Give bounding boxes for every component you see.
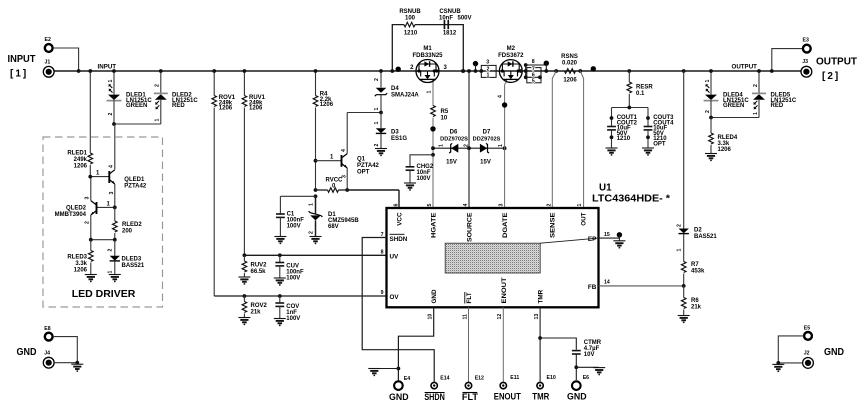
svg-text:J4: J4 — [44, 350, 50, 356]
wire E2 to rail — [53, 48, 81, 73]
wire SHDN route to E14 — [362, 238, 434, 382]
svg-text:1206: 1206 — [74, 268, 88, 274]
svg-text:D2: D2 — [694, 228, 702, 234]
resistor RSNUB — [399, 9, 421, 37]
wire CHG2 branch — [410, 153, 435, 166]
transistor QLED2 MMBT3904 (mirrored) — [55, 197, 117, 225]
wire D2 column from rail — [682, 69, 686, 228]
terminal E6 — [567, 375, 589, 401]
svg-text:SENSE: SENSE — [550, 213, 557, 239]
svg-text:FDS3672: FDS3672 — [498, 53, 524, 59]
svg-text:2: 2 — [487, 66, 490, 72]
svg-text:68V: 68V — [328, 224, 339, 230]
svg-text:3: 3 — [486, 59, 489, 65]
testpoint on DGATE — [502, 102, 507, 107]
svg-text:GND: GND — [431, 289, 438, 303]
svg-text:2: 2 — [374, 78, 380, 81]
wire CTMR ground branch — [574, 365, 598, 369]
svg-text:0.1: 0.1 — [636, 91, 645, 97]
svg-text:4: 4 — [109, 165, 115, 168]
svg-text:MMBT3904: MMBT3904 — [55, 212, 87, 218]
svg-text:FLT: FLT — [466, 292, 473, 303]
terminal E10 — [532, 375, 556, 402]
svg-text:RUV2: RUV2 — [251, 263, 268, 269]
svg-text:4: 4 — [341, 149, 347, 152]
LED driver dashed box — [43, 137, 163, 307]
OUTPUT [2] label — [816, 57, 857, 83]
svg-text:M1: M1 — [423, 46, 432, 52]
snubber loop wire — [390, 25, 465, 73]
mosfet M2 FDS3672 — [498, 46, 524, 82]
diode DLED3 BAS521 — [108, 240, 145, 275]
svg-text:10nF: 10nF — [439, 16, 453, 22]
ground D3 — [375, 149, 387, 156]
ground CTMR — [593, 368, 605, 375]
wire DLED1 node down to QLED1 collector — [114, 124, 116, 170]
svg-text:BAS521: BAS521 — [694, 234, 717, 240]
wire CTMR branch — [540, 338, 576, 350]
svg-text:1: 1 — [108, 271, 114, 274]
exposed pad EP hatch — [445, 238, 598, 273]
svg-text:453k: 453k — [691, 269, 705, 275]
wire RVCC row to VCC pin 6 — [347, 190, 399, 208]
pin 10 GND — [428, 289, 439, 319]
svg-text:TMR: TMR — [532, 392, 549, 402]
resistor ROV1 — [212, 69, 236, 296]
svg-text:SMAJ24A: SMAJ24A — [391, 93, 419, 99]
svg-text:66.5k: 66.5k — [251, 269, 267, 275]
wire FLT column — [468, 307, 470, 382]
wire QLED2 collector up to RLED1 node — [88, 175, 92, 201]
svg-text:FDB33N25: FDB33N25 — [412, 53, 443, 59]
svg-text:15: 15 — [604, 232, 610, 238]
mosfet M1 FDB33N25 — [410, 46, 447, 83]
terminal J4 — [43, 350, 54, 368]
net label INPUT — [98, 64, 117, 71]
wire Q1 emitter down to RVCC row — [345, 168, 349, 192]
svg-text:1: 1 — [374, 108, 380, 111]
svg-text:2: 2 — [85, 221, 91, 224]
LED DLED2 (red) — [154, 69, 199, 124]
svg-text:15V: 15V — [446, 160, 457, 166]
ground C1 — [274, 237, 286, 244]
svg-text:SHDN: SHDN — [390, 236, 408, 243]
svg-text:1206: 1206 — [718, 147, 732, 153]
svg-text:2: 2 — [463, 144, 469, 147]
terminal J3 — [801, 59, 812, 77]
svg-text:1: 1 — [577, 204, 583, 207]
wire SENSE kelvin tap — [552, 69, 558, 208]
svg-text:2: 2 — [546, 204, 552, 207]
GND label left — [17, 347, 37, 358]
svg-text:DGATE: DGATE — [502, 213, 509, 239]
svg-text:14: 14 — [604, 280, 610, 286]
diode D2 BAS521 — [677, 224, 718, 262]
resistor RLED3 — [67, 240, 93, 275]
resistor RLED2 — [113, 207, 143, 239]
svg-text:E11: E11 — [510, 375, 519, 381]
pin 14 FB — [588, 280, 684, 291]
svg-text:D6: D6 — [450, 130, 458, 136]
ground GND pin — [368, 369, 380, 376]
node FB junction — [682, 284, 686, 288]
pin 12 ENOUT — [497, 277, 508, 319]
svg-text:1: 1 — [374, 122, 380, 125]
resistor R5 — [431, 106, 449, 209]
svg-text:2: 2 — [108, 113, 114, 116]
svg-text:GND: GND — [824, 347, 844, 358]
zener D1 CMZ5945B — [308, 196, 359, 236]
svg-text:RSNUB: RSNUB — [399, 9, 421, 15]
svg-text:3: 3 — [85, 197, 91, 200]
svg-text:100V: 100V — [417, 176, 431, 182]
wire LED bottoms row — [112, 122, 161, 126]
svg-text:10: 10 — [441, 116, 448, 122]
svg-text:15V: 15V — [480, 160, 491, 166]
resistor ROV2 — [242, 294, 267, 317]
svg-text:LTC4364HDE- *: LTC4364HDE- * — [592, 194, 670, 205]
ground J4 — [71, 364, 83, 371]
wire to ground from GND route — [375, 368, 398, 370]
svg-text:2: 2 — [308, 231, 314, 234]
M2 drain pin group box (pins 8,7,6,5) — [519, 59, 546, 84]
ground COV — [274, 319, 286, 326]
svg-text:OV: OV — [390, 294, 400, 301]
svg-text:1: 1 — [439, 144, 445, 147]
svg-text:8: 8 — [532, 59, 535, 65]
svg-text:R5: R5 — [441, 109, 449, 115]
svg-text:4: 4 — [498, 95, 504, 98]
svg-text:INPUT: INPUT — [8, 54, 36, 65]
node D4/D3/Q1 junction — [379, 111, 383, 115]
capacitor COUT3/COUT4 — [644, 115, 675, 148]
svg-text:PZTA42: PZTA42 — [124, 184, 147, 190]
wire TMR column — [538, 307, 542, 381]
svg-text:3.3k: 3.3k — [75, 261, 87, 267]
svg-text:21k: 21k — [691, 305, 702, 311]
svg-text:E6: E6 — [583, 375, 589, 381]
resistor RLED1 — [67, 151, 92, 170]
terminal E14 — [424, 376, 449, 403]
capacitor CTMR — [572, 340, 602, 380]
wire OV row to pin 9 — [214, 295, 386, 297]
wire M1 gate / HGATE column — [427, 82, 434, 105]
transistor QLED1 PZTA42 — [90, 165, 147, 195]
pin 4 SOURCE — [463, 204, 474, 243]
svg-text:5: 5 — [532, 78, 535, 84]
svg-text:8: 8 — [381, 250, 384, 256]
svg-text:4: 4 — [463, 204, 469, 207]
svg-text:DDZ9702S: DDZ9702S — [440, 137, 468, 143]
svg-text:HGATE: HGATE — [431, 213, 438, 239]
svg-text:200: 200 — [122, 229, 133, 235]
ground R6 — [678, 316, 690, 323]
terminal E3 — [803, 38, 811, 53]
svg-text:[ 2 ]: [ 2 ] — [822, 71, 838, 82]
zener D6 DDZ9702S — [439, 130, 469, 166]
svg-text:100V: 100V — [286, 316, 300, 322]
resistor R6 — [681, 286, 701, 316]
op-amp U1 LTC4364HDE IC body — [387, 183, 671, 308]
capacitor COV — [275, 294, 300, 322]
wire D6/D7 row — [431, 146, 506, 150]
terminal E5 — [804, 325, 812, 340]
wire C1 branch — [280, 194, 317, 198]
pin 11 FLT — [462, 292, 473, 320]
svg-text:1: 1 — [108, 80, 114, 83]
svg-text:QLED1: QLED1 — [124, 177, 145, 183]
svg-text:100V: 100V — [287, 224, 301, 230]
capacitor COUT1/COUT2 — [607, 115, 638, 148]
pin 8 UV — [381, 250, 399, 261]
ground COUT3/4 — [642, 148, 654, 155]
svg-text:1: 1 — [427, 91, 433, 94]
M2 source pin group box (pins 3,2,1) — [461, 59, 496, 78]
ground J2 — [772, 364, 784, 371]
svg-text:M2: M2 — [507, 46, 516, 52]
svg-text:10V: 10V — [584, 352, 595, 358]
diode D3 ES1G — [374, 113, 408, 149]
svg-text:5: 5 — [427, 204, 433, 207]
svg-text:2: 2 — [155, 84, 161, 87]
svg-text:GREEN: GREEN — [723, 103, 744, 109]
svg-text:2: 2 — [705, 110, 711, 113]
terminal J1 — [43, 60, 54, 78]
pin 5 HGATE — [427, 204, 438, 239]
svg-text:SHDN: SHDN — [424, 392, 445, 402]
svg-text:[ 1 ]: [ 1 ] — [10, 69, 26, 80]
pin 15 EP — [588, 232, 620, 243]
capacitor CHG2 — [406, 164, 434, 183]
net label OUTPUT — [732, 64, 758, 71]
svg-text:BAS521: BAS521 — [122, 263, 145, 269]
svg-text:2: 2 — [374, 144, 380, 147]
svg-text:DLED3: DLED3 — [122, 257, 142, 263]
wire E5/J2 to ground — [776, 336, 803, 365]
wire GND pin route to E4 — [397, 307, 434, 381]
ground DLED3 — [109, 275, 121, 282]
wire OUT kelvin tap — [578, 69, 583, 208]
svg-text:RSNS: RSNS — [561, 54, 578, 60]
terminal E4 — [389, 376, 410, 402]
svg-text:GND: GND — [567, 392, 587, 402]
svg-text:CSNUB: CSNUB — [439, 9, 461, 15]
svg-text:1: 1 — [155, 119, 161, 122]
svg-text:DDZ9702S: DDZ9702S — [473, 137, 501, 143]
svg-text:1: 1 — [308, 203, 314, 206]
svg-text:RESR: RESR — [636, 85, 653, 91]
terminal E12 — [462, 376, 484, 403]
svg-text:OPT: OPT — [653, 142, 666, 148]
ground RUV2 — [238, 277, 250, 284]
resistor RUV1 — [242, 69, 266, 255]
svg-text:OUT: OUT — [580, 212, 587, 225]
svg-text:2: 2 — [753, 84, 759, 87]
svg-text:E10: E10 — [547, 375, 556, 381]
svg-text:7: 7 — [532, 66, 535, 72]
svg-text:OUTPUT: OUTPUT — [816, 57, 857, 68]
LED DLED4 (green) — [704, 69, 750, 117]
pin 13 TMR — [534, 289, 545, 319]
svg-text:1206: 1206 — [74, 164, 88, 170]
svg-text:0.020: 0.020 — [562, 60, 578, 66]
svg-text:1206: 1206 — [563, 78, 577, 84]
svg-text:3: 3 — [499, 204, 505, 207]
ground RLED3 — [85, 275, 97, 282]
resistor RLED4 — [709, 118, 738, 154]
testpoint on output rail — [591, 66, 596, 71]
terminal E2 — [45, 37, 53, 52]
svg-text:D7: D7 — [483, 130, 491, 136]
wire RLED1 column — [88, 69, 92, 177]
svg-text:ES1G: ES1G — [391, 136, 407, 142]
wire ENOUT column — [502, 307, 504, 382]
svg-text:UV: UV — [390, 254, 400, 261]
wire SOURCE column — [467, 69, 471, 208]
svg-text:J1: J1 — [45, 60, 51, 66]
svg-text:249k: 249k — [74, 157, 88, 163]
main input/output rail wire — [54, 70, 802, 72]
ground COUT1/2 — [606, 148, 618, 155]
terminal E11 — [494, 375, 521, 402]
svg-text:OPT: OPT — [357, 170, 370, 176]
ground ROV2 — [238, 318, 250, 325]
svg-text:100V: 100V — [286, 276, 300, 282]
wire COUT bus — [612, 106, 649, 127]
svg-text:3: 3 — [109, 192, 115, 195]
wire E8/J4 to ground — [53, 337, 79, 365]
ground CHG2 — [404, 183, 416, 190]
svg-text:SOURCE: SOURCE — [467, 213, 474, 243]
svg-text:12: 12 — [497, 314, 503, 320]
svg-text:E2: E2 — [45, 37, 51, 43]
svg-text:RLED1: RLED1 — [67, 151, 87, 157]
svg-text:RLED3: RLED3 — [67, 255, 87, 261]
svg-text:J2: J2 — [804, 351, 810, 357]
resistor R7 — [681, 262, 705, 286]
wire QLED1 emitter down — [114, 184, 116, 207]
svg-text:PZTA42: PZTA42 — [357, 163, 380, 169]
LED DRIVER title — [72, 288, 136, 300]
testpoint on rail near snubber — [396, 67, 401, 72]
pin 7 SHDN — [381, 232, 408, 243]
svg-text:11: 11 — [462, 314, 468, 320]
svg-text:U1: U1 — [599, 183, 612, 194]
svg-text:E12: E12 — [475, 376, 484, 382]
svg-text:1: 1 — [677, 249, 683, 252]
svg-text:Q1: Q1 — [357, 157, 366, 163]
terminal E8 — [44, 326, 52, 341]
svg-text:1210: 1210 — [404, 31, 418, 37]
svg-text:FLT: FLT — [462, 392, 478, 402]
testpoint on HGATE — [430, 126, 435, 131]
svg-text:21k: 21k — [251, 310, 262, 316]
capacitor CUV — [275, 253, 304, 281]
svg-text:1206: 1206 — [249, 106, 263, 112]
svg-text:ROV2: ROV2 — [251, 303, 268, 309]
ground D1 — [310, 237, 322, 244]
svg-text:100: 100 — [405, 16, 416, 22]
pin 9 OV — [381, 290, 400, 301]
svg-text:GND: GND — [389, 392, 409, 402]
pin 3 DGATE — [499, 204, 509, 239]
svg-text:J3: J3 — [802, 59, 808, 65]
ground RLED4 — [705, 154, 717, 161]
resistor RESR — [627, 69, 653, 107]
svg-text:E3: E3 — [803, 38, 809, 44]
TVS D4 SMAJ24A — [374, 69, 420, 112]
svg-text:RLED2: RLED2 — [122, 222, 142, 228]
svg-text:1: 1 — [487, 73, 490, 79]
LED DLED1 (green) — [107, 69, 153, 124]
svg-text:GREEN: GREEN — [126, 103, 147, 109]
GND label right — [824, 347, 844, 358]
svg-text:RED: RED — [771, 103, 784, 109]
svg-text:2: 2 — [108, 249, 114, 252]
svg-text:1: 1 — [753, 112, 759, 115]
wire DLED4/5 bottom row — [709, 116, 759, 120]
svg-text:9: 9 — [381, 290, 384, 296]
svg-text:TMR: TMR — [538, 289, 545, 303]
svg-text:10: 10 — [428, 314, 434, 320]
svg-text:QLED2: QLED2 — [66, 206, 87, 212]
svg-text:1: 1 — [498, 144, 504, 147]
svg-text:LED DRIVER: LED DRIVER — [72, 288, 136, 300]
ground CUV — [274, 278, 286, 285]
terminal J2 — [803, 351, 814, 369]
svg-text:E4: E4 — [404, 376, 410, 382]
wire LED driver bottom row — [89, 238, 117, 242]
svg-text:OUTPUT: OUTPUT — [732, 64, 758, 71]
svg-text:R7: R7 — [691, 262, 699, 268]
ground EP — [613, 241, 625, 248]
svg-text:2: 2 — [677, 224, 683, 227]
svg-text:EP: EP — [588, 236, 596, 243]
transistor Q1 PZTA42 OPT — [314, 149, 380, 178]
svg-text:VCC: VCC — [397, 212, 404, 226]
pin 1 OUT — [577, 204, 587, 226]
testpoint at EP — [617, 232, 622, 241]
zener D7 DDZ9702S — [463, 130, 504, 166]
svg-text:FB: FB — [588, 284, 597, 291]
pin 2 SENSE — [546, 204, 556, 239]
svg-text:ENOUT: ENOUT — [494, 392, 521, 402]
svg-text:R6: R6 — [691, 298, 699, 304]
testpoint stem before M2 — [473, 61, 478, 73]
svg-text:D3: D3 — [391, 130, 399, 136]
wire E3 to rail — [770, 49, 802, 73]
resistor R4 — [313, 69, 334, 190]
svg-text:6: 6 — [393, 204, 399, 207]
svg-text:500V: 500V — [457, 16, 471, 22]
wire UV row to pin 8 — [244, 254, 386, 256]
svg-text:E5: E5 — [804, 325, 810, 331]
pin 6 VCC — [393, 204, 403, 226]
svg-text:1206: 1206 — [320, 102, 334, 108]
INPUT [1] label — [8, 54, 36, 80]
wire QLED2 emitter down to bottom row — [90, 215, 92, 240]
svg-text:ENOUT: ENOUT — [501, 277, 508, 303]
svg-text:13: 13 — [534, 314, 540, 320]
svg-text:1206: 1206 — [219, 106, 233, 112]
svg-text:GND: GND — [17, 347, 37, 358]
resistor RUV2 — [242, 253, 267, 277]
svg-text:RED: RED — [172, 103, 185, 109]
svg-text:E14: E14 — [440, 376, 449, 382]
resistor RSNS 0.020 — [561, 54, 578, 84]
testpoint after M2 — [544, 61, 549, 73]
capacitor CSNUB — [439, 9, 472, 37]
